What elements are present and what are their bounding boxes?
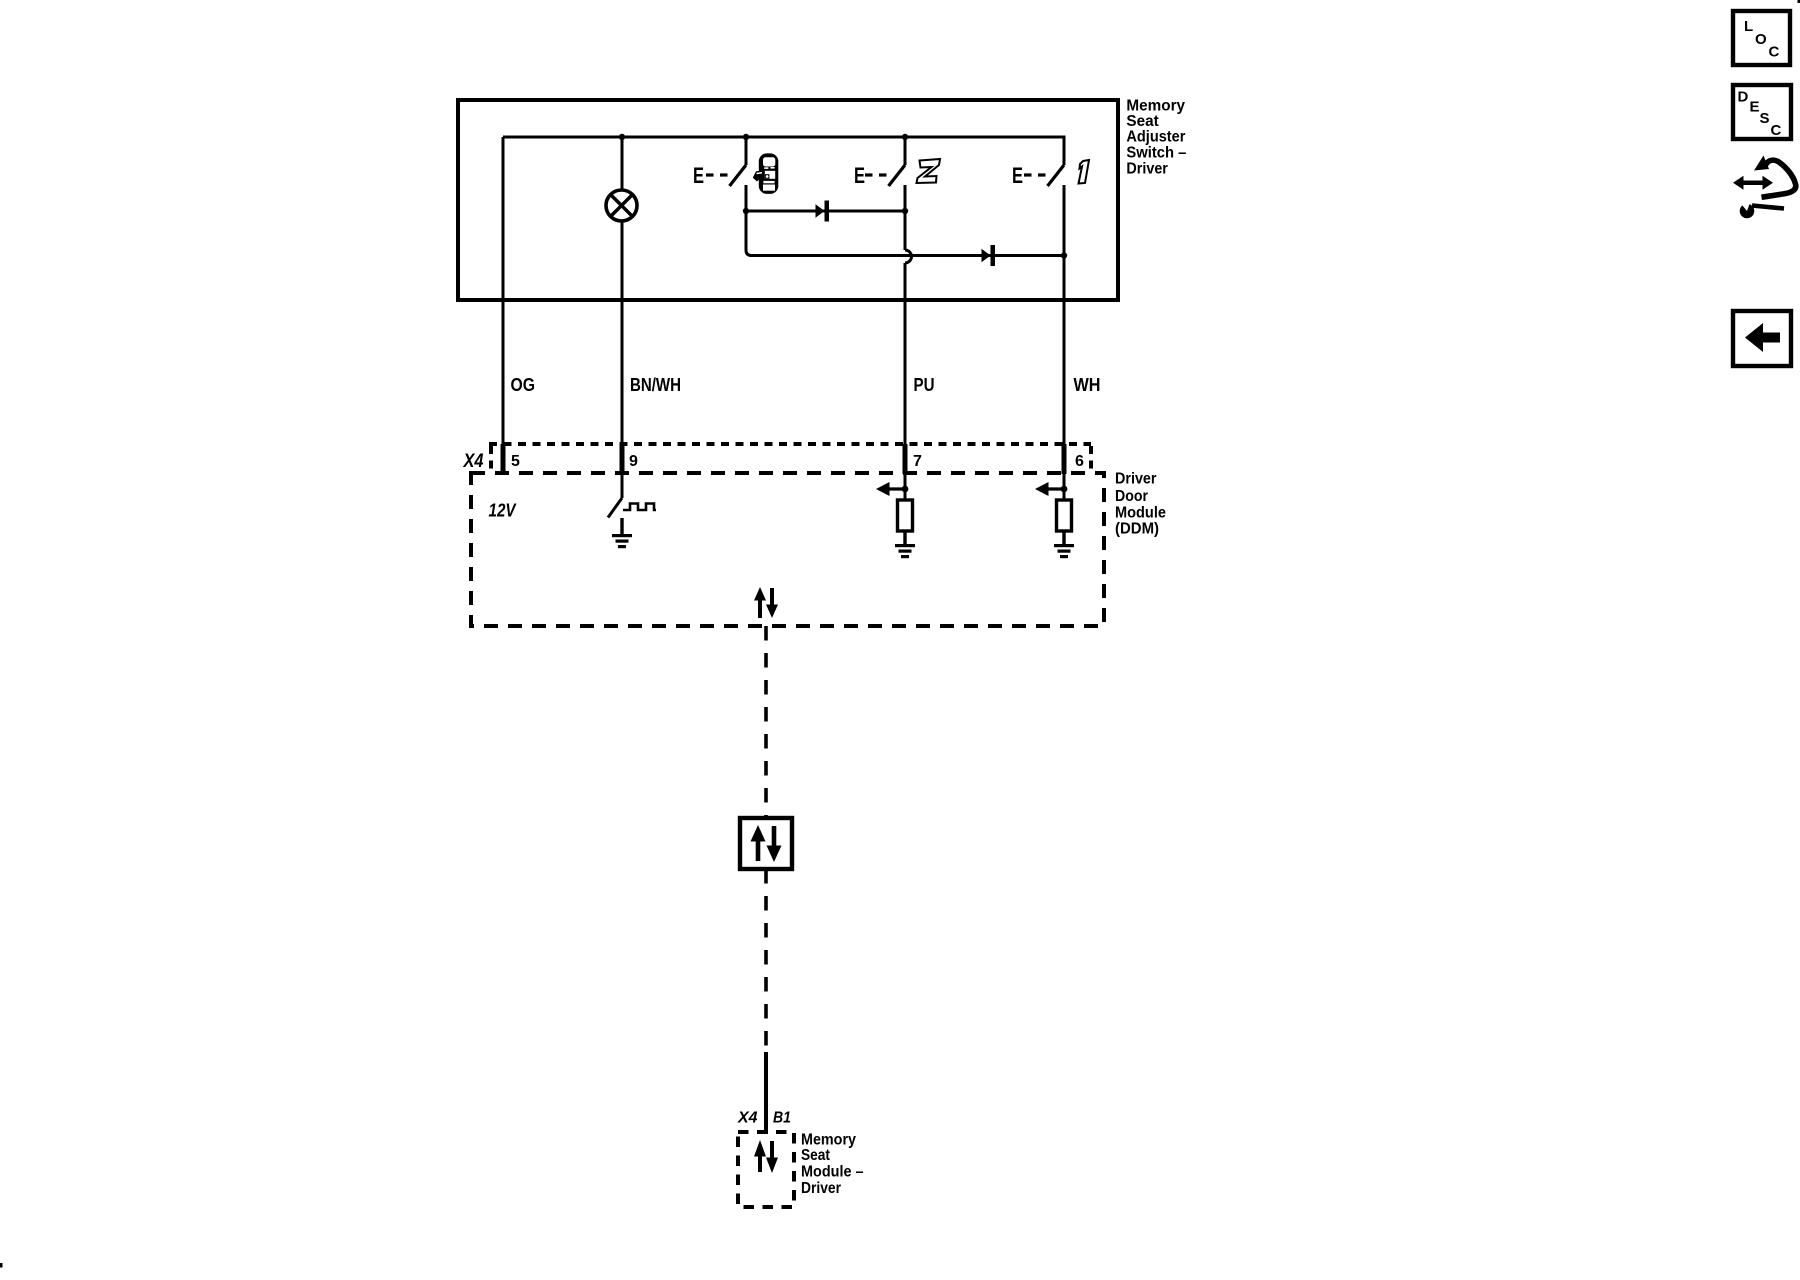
svg-text:C: C <box>1769 44 1780 61</box>
wire: switch 2 lower leg PU with hop <box>905 185 912 474</box>
wire: pin 7 internal <box>904 473 907 500</box>
node: crossover to switch 1 junction <box>1061 252 1067 258</box>
svg-text:Door: Door <box>1115 488 1148 505</box>
svg-text:X4: X4 <box>463 451 484 472</box>
svg-text:OG: OG <box>511 375 536 395</box>
wire: OG feed from bus to connector <box>502 137 505 474</box>
ground (pin 6) <box>1054 531 1074 558</box>
ground (pin 9) <box>612 518 632 548</box>
component box: Memory Seat Adjuster Switch - Driver <box>458 100 1118 300</box>
svg-text:Driver: Driver <box>801 1180 841 1197</box>
node: bus to lamp junction <box>619 134 625 140</box>
svg-text:9: 9 <box>629 453 638 470</box>
mark: page corner artifact top right <box>1798 0 1800 3</box>
switch 2 label E-- <box>854 163 887 188</box>
label: numeral 1 (outline) <box>1079 160 1090 184</box>
label: pin 9 <box>629 453 638 470</box>
switch 1 label E-- <box>1012 163 1046 188</box>
diode D2 <box>982 245 996 266</box>
lamp: illumination bulb <box>606 190 637 221</box>
svg-text:Switch –: Switch – <box>1126 145 1186 162</box>
svg-text:6: 6 <box>1075 453 1084 470</box>
node: switch A to diode branch junction <box>743 208 749 214</box>
svg-text:Memory: Memory <box>1126 98 1185 115</box>
switch 1 blade <box>1048 165 1065 186</box>
svg-text:12V: 12V <box>489 501 518 521</box>
svg-text:Driver: Driver <box>1126 161 1168 178</box>
svg-text:Seat: Seat <box>801 1147 830 1164</box>
wire: switch 1 lower leg WH <box>1063 185 1066 474</box>
label: PWM square wave symbol <box>623 504 656 511</box>
switch 2 blade <box>889 165 906 186</box>
svg-text:Module: Module <box>1115 505 1166 522</box>
svg-text:E: E <box>693 163 704 188</box>
component box: Memory Seat Module - Driver dashed <box>738 1132 794 1207</box>
node: diode D1 to switch 2 junction <box>902 208 908 214</box>
icon: LOC hotspot box <box>1733 11 1790 65</box>
arrow: up (inline connector) <box>751 825 766 861</box>
icon: wiring repair (double arrow and wrench) <box>1733 156 1796 219</box>
label: connector X4 (MSM) <box>737 1110 758 1127</box>
svg-text:C: C <box>1771 122 1782 139</box>
node: pin 7 arrow junction <box>902 486 909 493</box>
svg-text:Module –: Module – <box>801 1163 864 1180</box>
wire: switch A lower leg <box>746 185 752 256</box>
component box: Driver Door Module (DDM) dashed <box>471 473 1104 626</box>
label: pin 7 <box>913 453 922 470</box>
svg-text:5: 5 <box>511 453 520 470</box>
label: wire WH <box>1074 375 1101 395</box>
switch A blade <box>730 165 747 186</box>
label: wire BN/WH <box>630 375 681 395</box>
icon: car seat (switch A) <box>753 153 779 194</box>
svg-text:Driver: Driver <box>1115 470 1157 487</box>
svg-text:Adjuster: Adjuster <box>1126 128 1185 145</box>
arrow: signal direction (pin 6) <box>1035 482 1064 496</box>
svg-text:(DDM): (DDM) <box>1115 521 1159 538</box>
wire: serial data dashed (lower) <box>764 869 768 1048</box>
arrow: signal direction (pin 7) <box>876 482 905 496</box>
wire: diode D1 branch <box>746 210 905 213</box>
node: pin 6 arrow junction <box>1061 486 1068 493</box>
mark: page corner artifact bottom left <box>0 1263 3 1268</box>
wire: serial data dashed (upper) <box>764 626 768 818</box>
svg-text:E: E <box>1012 163 1023 188</box>
arrow: up (MSM) <box>754 1140 766 1172</box>
wire: serial data solid into MSM <box>764 1052 768 1134</box>
svg-text:WH: WH <box>1074 375 1101 395</box>
label: numeral 2 (outline) <box>917 159 941 183</box>
svg-text:E: E <box>1750 99 1760 116</box>
icon: DESC hotspot box <box>1733 85 1791 139</box>
arrow: serial data down (DDM) <box>766 588 778 618</box>
wire: crossover link switch A to switch 1 <box>750 254 1064 257</box>
label: Memory Seat Adjuster Switch - Driver <box>1126 98 1186 178</box>
label: pin 5 <box>511 453 520 470</box>
connector X4 dotted line (DDM) <box>489 444 1091 472</box>
wire: pin 6 internal <box>1063 473 1066 500</box>
label: pin B1 <box>773 1110 791 1127</box>
node: bus to switch 2 junction <box>902 134 908 140</box>
svg-text:D: D <box>1738 89 1749 106</box>
arrow: serial data up (DDM) <box>754 587 766 618</box>
diode D1 <box>816 201 830 222</box>
svg-text:BN/WH: BN/WH <box>630 375 681 395</box>
switch to ground (pin 9) inside DDM <box>608 473 622 518</box>
wire: lamp branch BN/WH <box>621 137 624 474</box>
svg-text:O: O <box>1755 31 1767 48</box>
svg-text:7: 7 <box>913 453 922 470</box>
label: wire PU <box>914 375 935 395</box>
icon: back arrow box <box>1733 311 1791 366</box>
label: Driver Door Module (DDM) <box>1115 470 1166 537</box>
switch A label E-- <box>693 163 728 188</box>
label: 12V <box>489 501 518 521</box>
node: bus to switch A junction <box>743 134 749 140</box>
svg-text:B1: B1 <box>773 1110 791 1127</box>
label: pin 6 <box>1075 453 1084 470</box>
resistor (pin 6) <box>1057 500 1072 531</box>
label: connector X4 <box>463 451 484 472</box>
switch 2: top stub <box>904 137 907 165</box>
arrow: down (inline connector) <box>767 826 782 862</box>
ground (pin 7) <box>895 531 915 558</box>
resistor (pin 7) <box>898 500 913 531</box>
svg-text:S: S <box>1760 110 1770 127</box>
label: Memory Seat Module - Driver <box>801 1131 864 1197</box>
svg-text:X4: X4 <box>737 1110 758 1127</box>
svg-text:E: E <box>854 163 865 188</box>
arrow: down (MSM) <box>766 1141 778 1173</box>
svg-text:L: L <box>1744 18 1753 35</box>
svg-text:Memory: Memory <box>801 1131 856 1148</box>
label: wire OG <box>511 375 536 395</box>
wire: supply bus inside switch box <box>503 137 1064 165</box>
svg-text:PU: PU <box>914 375 935 395</box>
switch A (memory set switch): top stub <box>745 137 748 165</box>
inline connector: serial data link box <box>740 818 792 869</box>
